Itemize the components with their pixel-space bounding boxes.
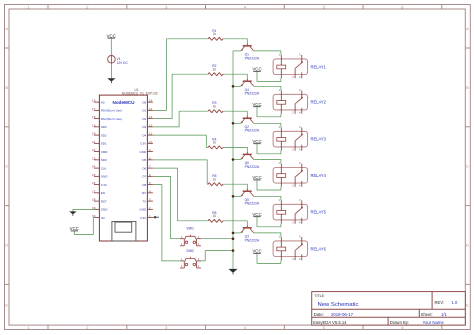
svg-text:D8: D8 — [142, 183, 146, 187]
U1 left pin 24 CLK — [92, 165, 106, 171]
ground (below V1) — [107, 78, 115, 83]
svg-text:C: C — [466, 164, 469, 169]
resistor R1 — [208, 37, 223, 40]
svg-text:1/1: 1/1 — [441, 312, 447, 317]
ground (bus bottom) — [229, 269, 238, 275]
U1 right pin 10 3.3V — [140, 140, 153, 146]
U1 right pin 12 D3 — [142, 123, 153, 129]
svg-text:PN2222A: PN2222A — [245, 202, 260, 206]
wire VCC to RELAY1 coil — [257, 71, 281, 81]
svg-text:RSV(Don't Use): RSV(Don't Use) — [101, 117, 122, 121]
resistor R2 — [208, 73, 223, 76]
svg-text:3.3V: 3.3V — [101, 183, 107, 187]
svg-text:RELAY2: RELAY2 — [311, 100, 327, 105]
wire SW2 to ground bus — [201, 251, 233, 261]
svg-text:D4: D4 — [142, 133, 146, 137]
relay RELAY5 — [273, 198, 308, 225]
U1 right pin 13 D2 — [142, 115, 153, 121]
wire Q1 emitter to ground bus — [233, 50, 241, 52]
wire VCC to RELAY3 coil — [257, 144, 281, 154]
U1 right pin 2 GND — [140, 206, 153, 212]
U1 right pin 5 D8 — [142, 181, 153, 187]
wire R5 to Q5 base — [223, 184, 247, 190]
relay RELAY3 — [273, 125, 308, 152]
wire D4 to R4 — [153, 135, 208, 147]
wire Q1 collector to RELAY1 coil — [254, 51, 281, 55]
wire D8 to SW2 — [153, 185, 180, 261]
wire Q6 collector to RELAY4 coil — [254, 160, 281, 164]
svg-text:VCC: VCC — [252, 102, 261, 107]
wire R6 to Q3 base — [223, 221, 247, 227]
svg-text:1k: 1k — [213, 32, 217, 36]
svg-text:GND: GND — [101, 208, 109, 212]
svg-text:14: 14 — [149, 107, 153, 111]
svg-text:PN2222A: PN2222A — [245, 238, 260, 242]
junction Q6 emitter on bus — [232, 158, 235, 161]
U1 left pin 26 3.3V — [92, 181, 107, 187]
junction SW1 on bus — [232, 237, 235, 240]
U1 left pin 22 CMD — [92, 148, 108, 154]
svg-text:TITLE:: TITLE: — [314, 294, 325, 298]
svg-text:27: 27 — [92, 189, 96, 193]
svg-text:D2: D2 — [142, 117, 146, 121]
svg-text:RX: RX — [142, 191, 146, 195]
junction Q3 emitter on bus — [232, 232, 235, 235]
U1 left pin 28 RST — [92, 198, 107, 204]
junction SW2 on bus — [232, 249, 235, 252]
svg-text:PN2222A: PN2222A — [245, 92, 260, 96]
svg-text:NodeMCU: NodeMCU — [113, 100, 136, 105]
svg-text:19: 19 — [92, 123, 96, 127]
svg-text:1k: 1k — [213, 105, 217, 109]
svg-text:PN2222A: PN2222A — [245, 165, 260, 169]
U1 right pin 9 GND — [140, 148, 153, 154]
U1 left pin 29 GND — [92, 206, 108, 212]
transistor Q2 PN2222A — [241, 116, 254, 124]
wire D7 to SW1 — [153, 176, 180, 238]
U1 left pin 20 SD2 — [92, 132, 107, 138]
USB connector drawing on U1 — [112, 222, 136, 242]
svg-text:1k: 1k — [213, 68, 217, 72]
svg-text:D5: D5 — [142, 158, 146, 162]
svg-text:21: 21 — [92, 140, 96, 144]
switch SW1 — [180, 235, 201, 246]
U1 right pin 14 D1 — [142, 107, 153, 113]
title block — [312, 292, 466, 326]
svg-text:20: 20 — [92, 132, 96, 136]
wire Q3 emitter to ground bus — [233, 232, 241, 234]
svg-text:E: E — [5, 303, 8, 308]
svg-text:B: B — [5, 85, 8, 90]
svg-text:RST: RST — [101, 199, 107, 203]
net flag VCC (RELAY6 coil) — [252, 249, 261, 254]
wire V1 minus to ground — [110, 63, 112, 78]
svg-text:EasyEDA V5.5.14: EasyEDA V5.5.14 — [313, 320, 347, 325]
svg-text:RELAY3: RELAY3 — [311, 137, 327, 142]
transistor Q6 PN2222A — [241, 152, 254, 160]
junction Q4 emitter on bus — [232, 85, 235, 88]
svg-text:New Schematic: New Schematic — [318, 302, 359, 308]
U1 right pin 4 RX — [142, 189, 153, 195]
svg-text:D: D — [5, 243, 8, 248]
svg-text:VCC: VCC — [252, 249, 261, 254]
svg-text:RELAY6: RELAY6 — [311, 246, 327, 251]
U1 right pin 8 D5 — [142, 156, 153, 162]
net flag VCC (RELAY2 coil) — [252, 102, 261, 107]
svg-text:D3: D3 — [142, 125, 146, 129]
net flag VCC (pin 30 Vin) — [70, 226, 79, 231]
net arrow on pin 1 3.3V — [153, 216, 159, 219]
wire D1 to R1 — [153, 39, 208, 111]
wire pin29 GND to ground — [73, 208, 95, 210]
svg-text:15: 15 — [149, 99, 153, 103]
svg-text:RSV(Don't Use): RSV(Don't Use) — [101, 109, 122, 113]
junction Q2 emitter on bus — [232, 122, 235, 125]
svg-text:EN: EN — [101, 191, 105, 195]
wire Q5 emitter to ground bus — [233, 195, 241, 197]
svg-text:17: 17 — [92, 107, 96, 111]
svg-text:2018-06-17: 2018-06-17 — [331, 312, 354, 317]
svg-text:1k: 1k — [213, 214, 217, 218]
svg-text:SD2: SD2 — [101, 133, 107, 137]
resistor R4 — [208, 146, 223, 149]
U1 left pin 30 Vin — [92, 214, 105, 220]
svg-text:VCC: VCC — [107, 33, 117, 38]
svg-text:18: 18 — [92, 115, 96, 119]
wire R2 to Q4 base — [223, 74, 247, 80]
svg-text:Sheet:: Sheet: — [421, 312, 433, 317]
net flag VCC (top, above V1) — [107, 33, 117, 38]
svg-text:RELAY4: RELAY4 — [311, 173, 327, 178]
svg-text:10: 10 — [149, 140, 153, 144]
U1 right pin 1 3.3V — [140, 214, 153, 220]
wire VCC to RELAY4 coil — [257, 180, 281, 190]
ground (pin 29) — [69, 211, 76, 216]
U1 left pin 17 RSV(Don't Use) — [92, 107, 122, 113]
svg-text:C: C — [5, 164, 8, 169]
switch SW2 — [180, 257, 201, 268]
resistor R5 — [208, 183, 223, 186]
wire R4 to Q6 base — [223, 147, 247, 153]
svg-text:REV:: REV: — [435, 300, 445, 305]
IC U1 NODEMCU_V1_ESP12E body — [99, 95, 147, 241]
wire Q2 emitter to ground bus — [233, 122, 241, 124]
svg-text:TX: TX — [142, 199, 146, 203]
svg-text:CMD: CMD — [101, 150, 109, 154]
net flag VCC (RELAY3 coil) — [252, 139, 261, 144]
transistor Q5 PN2222A — [241, 189, 254, 197]
wire R3 to Q2 base — [223, 111, 247, 117]
U1 left pin 23 SD0 — [92, 156, 107, 162]
svg-text:RELAY5: RELAY5 — [311, 210, 327, 215]
svg-text:28: 28 — [92, 198, 96, 202]
svg-text:D1: D1 — [142, 109, 146, 113]
relay RELAY1 — [273, 52, 308, 79]
U1 right pin 7 D6 — [142, 165, 153, 171]
svg-text:12: 12 — [149, 123, 153, 127]
wire D5 to R5 — [153, 160, 208, 184]
U1 left pin 27 EN — [92, 189, 105, 195]
relay RELAY2 — [273, 88, 308, 115]
wire VCC to V1 plus — [110, 38, 112, 55]
svg-text:D7: D7 — [142, 175, 146, 179]
svg-text:Drawn By:: Drawn By: — [390, 320, 409, 325]
U1 left pin 16 A0 — [92, 99, 105, 105]
svg-text:D6: D6 — [142, 166, 146, 170]
wire VCC to RELAY6 coil — [257, 253, 281, 263]
svg-text:12V DC: 12V DC — [117, 61, 129, 65]
svg-text:1.0: 1.0 — [452, 300, 458, 305]
wire Q2 collector to RELAY3 coil — [254, 123, 281, 127]
svg-text:24: 24 — [92, 165, 96, 169]
svg-text:A0: A0 — [101, 100, 105, 104]
svg-text:D: D — [466, 243, 469, 248]
wire VCC to RELAY2 coil — [257, 107, 281, 117]
U1 left pin 25 GND — [92, 173, 108, 179]
svg-text:SD1: SD1 — [101, 142, 107, 146]
svg-text:Vin: Vin — [101, 216, 106, 220]
relay RELAY6 — [273, 234, 308, 261]
svg-text:CLK: CLK — [101, 166, 107, 170]
U1 left pin 18 RSV(Don't Use) — [92, 115, 122, 121]
wire VCC to RELAY5 coil — [257, 217, 281, 227]
svg-text:23: 23 — [92, 156, 96, 160]
svg-text:A: A — [5, 26, 8, 31]
svg-text:3.3V: 3.3V — [140, 142, 146, 146]
svg-text:D0: D0 — [142, 100, 146, 104]
svg-text:22: 22 — [92, 148, 96, 152]
svg-text:A: A — [466, 26, 469, 31]
junction Q5 emitter on bus — [232, 195, 235, 198]
svg-text:25: 25 — [92, 173, 96, 177]
transistor Q3 PN2222A — [241, 225, 254, 233]
U1 right pin 15 D0 — [142, 99, 153, 105]
wire pin30 Vin to VCC — [74, 218, 95, 235]
svg-text:1k: 1k — [213, 178, 217, 182]
wire Q6 emitter to ground bus — [233, 159, 241, 161]
svg-text:VCC: VCC — [252, 212, 261, 217]
wire Q5 collector to RELAY5 coil — [254, 196, 281, 200]
wire D6 to R6 — [153, 168, 208, 221]
svg-text:VCC: VCC — [70, 226, 79, 231]
relay RELAY4 — [273, 161, 308, 188]
svg-text:26: 26 — [92, 181, 96, 185]
svg-text:B: B — [466, 85, 469, 90]
svg-text:1k: 1k — [213, 141, 217, 145]
U1 left pin 19 SD3 — [92, 123, 107, 129]
svg-text:PN2222A: PN2222A — [245, 129, 260, 133]
svg-text:VCC: VCC — [252, 175, 261, 180]
svg-text:Date:: Date: — [314, 312, 324, 317]
net flag VCC (RELAY4 coil) — [252, 175, 261, 180]
svg-text:16: 16 — [92, 99, 96, 103]
wire Q3 collector to RELAY6 coil — [254, 233, 281, 237]
svg-text:GND: GND — [140, 208, 148, 212]
wire R1 to Q1 base — [223, 39, 247, 45]
wire D3 to R3 — [153, 111, 208, 127]
svg-text:E: E — [466, 303, 469, 308]
svg-text:13: 13 — [149, 115, 153, 119]
svg-text:SD3: SD3 — [101, 125, 107, 129]
svg-text:NODEMCU_V1_ESP12E: NODEMCU_V1_ESP12E — [122, 91, 158, 95]
U1 right pin 3 TX — [142, 198, 153, 204]
U1 left pin 21 SD1 — [92, 140, 107, 146]
wire Q4 collector to RELAY2 coil — [254, 86, 281, 90]
svg-text:SD0: SD0 — [101, 158, 107, 162]
voltage source V1 — [108, 55, 116, 63]
svg-text:11: 11 — [149, 132, 152, 136]
net flag VCC (RELAY5 coil) — [252, 212, 261, 217]
transistor Q1 PN2222A — [241, 43, 254, 51]
svg-text:PN2222A: PN2222A — [245, 56, 260, 60]
svg-text:3.3V: 3.3V — [140, 216, 146, 220]
ground bus wire — [232, 51, 234, 269]
net flag VCC (RELAY1 coil) — [252, 67, 261, 72]
svg-text:SW2: SW2 — [186, 249, 194, 253]
svg-text:RELAY1: RELAY1 — [311, 64, 327, 69]
svg-text:SW1: SW1 — [186, 227, 194, 231]
U1 right pin 6 D7 — [142, 173, 153, 179]
svg-text:VCC: VCC — [252, 139, 261, 144]
transistor Q4 PN2222A — [241, 79, 254, 87]
wire Q4 emitter to ground bus — [233, 85, 241, 87]
svg-text:Your Name: Your Name — [423, 320, 445, 325]
svg-text:VCC: VCC — [252, 67, 261, 72]
wire D2 to R2 — [153, 74, 208, 118]
resistor R6 — [208, 219, 223, 222]
wire SW1 to ground bus — [201, 238, 233, 240]
svg-text:GND: GND — [140, 150, 148, 154]
svg-text:GND: GND — [101, 175, 109, 179]
U1 right pin 11 D4 — [142, 132, 153, 138]
resistor R3 — [208, 110, 223, 113]
